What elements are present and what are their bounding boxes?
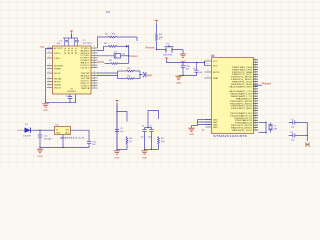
svg-text:TX1: TX1 xyxy=(40,46,45,49)
svg-text:XO: XO xyxy=(54,87,62,89)
U2 left pins gnd xyxy=(202,120,212,132)
ground caps xyxy=(175,76,181,84)
U2 part number xyxy=(213,135,248,138)
svg-text:UD+: UD+ xyxy=(54,53,62,55)
IC U1 body xyxy=(53,46,92,94)
ground grpA xyxy=(114,150,120,160)
capacitor C5 xyxy=(115,128,124,133)
U1 right pins xyxy=(91,46,98,88)
svg-text:2: 2 xyxy=(49,64,50,66)
svg-text:ADJ: ADJ xyxy=(65,132,69,135)
svg-text:PA12/USART1_RTS: PA12/USART1_RTS xyxy=(229,85,252,88)
svg-text:PCXO: PCXO xyxy=(83,43,92,45)
svg-text:8: 8 xyxy=(94,66,95,68)
wire RXD run xyxy=(97,46,126,50)
crystal Y2 xyxy=(265,122,277,134)
svg-text:SDA: SDA xyxy=(54,77,62,80)
svg-text:10u/16V: 10u/16V xyxy=(44,138,53,140)
wire vin xyxy=(18,129,25,131)
svg-text:9: 9 xyxy=(208,76,209,78)
svg-text:PA5/SPI1_SCK: PA5/SPI1_SCK xyxy=(232,129,253,132)
svg-text:AUX/IN: AUX/IN xyxy=(54,64,64,67)
background grid xyxy=(0,0,320,171)
svg-text:GND: GND xyxy=(38,156,44,158)
svg-text:2: 2 xyxy=(49,83,50,85)
svg-text:BOOT0: BOOT0 xyxy=(213,72,220,74)
ground U2 xyxy=(188,128,194,136)
svg-text:10K: 10K xyxy=(159,37,163,39)
resistor R7 xyxy=(105,33,117,38)
U1 name text xyxy=(67,88,76,93)
svg-text:UD-: UD- xyxy=(54,58,61,60)
power flag 3V3 U2 xyxy=(165,58,167,63)
svg-text:2: 2 xyxy=(49,77,50,79)
svg-text:Down: Down xyxy=(129,55,138,58)
svg-text:GND: GND xyxy=(43,110,49,112)
capacitor C12 xyxy=(87,130,97,147)
svg-text:Reset: Reset xyxy=(146,46,155,49)
svg-text:VBAT: VBAT xyxy=(213,77,219,80)
wire xtal top xyxy=(259,121,267,123)
svg-text:Reset: Reset xyxy=(262,82,271,85)
wire gnd rail reg xyxy=(39,135,89,149)
svg-text:4: 4 xyxy=(255,128,256,130)
wire RX run xyxy=(105,63,129,65)
resistor R5 xyxy=(109,60,119,64)
capacitor C11 xyxy=(38,130,52,147)
svg-text:VDD: VDD xyxy=(213,65,218,67)
svg-text:8: 8 xyxy=(94,86,95,88)
wire xtal bottom xyxy=(259,132,267,134)
svg-text:PB12/SPI2_NSS: PB12/SPI2_NSS xyxy=(231,108,253,110)
svg-text:GND: GND xyxy=(142,158,148,160)
svg-text:STM32F103C8T6: STM32F103C8T6 xyxy=(213,135,248,138)
wire vertical down net xyxy=(128,46,129,63)
svg-text:OUT#: OUT# xyxy=(81,68,91,70)
wire speaker join xyxy=(139,71,143,79)
U1 top inner labels xyxy=(65,45,77,54)
svg-text:9: 9 xyxy=(208,59,209,61)
IC U2 body xyxy=(212,58,254,134)
wire vin to reg xyxy=(39,130,54,131)
wire caps join xyxy=(295,122,308,141)
capacitor C6b xyxy=(149,126,153,150)
svg-text:GND: GND xyxy=(176,82,182,84)
ground grpB xyxy=(141,150,147,160)
power flag grpA xyxy=(116,101,118,150)
svg-text:AMS1117-3.3: AMS1117-3.3 xyxy=(60,137,86,140)
svg-text:10K: 10K xyxy=(161,141,165,143)
svg-text:GND: GND xyxy=(54,84,62,86)
U2 corner mark xyxy=(211,55,215,58)
net stub right xyxy=(159,39,161,41)
svg-text:2: 2 xyxy=(49,46,50,48)
resistor R1 xyxy=(118,68,141,72)
net label Down xyxy=(129,55,138,58)
U1 right pin names xyxy=(81,48,93,90)
wire xtal to caps xyxy=(289,122,293,135)
net label TX1 xyxy=(40,46,52,49)
svg-text:SW-PB: SW-PB xyxy=(163,54,173,56)
U2 right pin names xyxy=(229,67,253,132)
svg-text:9: 9 xyxy=(208,70,209,72)
button K1 xyxy=(163,44,174,57)
U1 left pin names xyxy=(54,47,64,90)
net label Reset1 xyxy=(146,46,158,50)
capacitor C7 xyxy=(291,119,295,129)
wire grpA branch xyxy=(116,111,127,122)
svg-text:ACT/OUT: ACT/OUT xyxy=(54,47,64,50)
label Y1 PCXO xyxy=(83,40,92,45)
wire caps gnd xyxy=(179,75,197,76)
cap values grpB xyxy=(141,136,153,138)
net label Reset2 xyxy=(262,82,271,85)
speaker symbol xyxy=(143,72,146,77)
wire U1 bottom pin xyxy=(75,94,76,103)
wire reg out xyxy=(71,129,90,131)
ground button xyxy=(180,54,186,63)
ground regulator xyxy=(37,148,43,159)
svg-text:GND: GND xyxy=(189,134,195,136)
power flag VCC above U1 xyxy=(70,31,72,38)
wire to speaker divider xyxy=(97,71,118,79)
capacitor C10 xyxy=(181,63,191,76)
net label RXI xyxy=(98,61,104,64)
regulator U3 body xyxy=(55,127,71,135)
U2 left pin names xyxy=(213,61,220,129)
net label 3V3 floating xyxy=(106,12,111,14)
svg-text:3V3: 3V3 xyxy=(106,12,111,14)
svg-text:2: 2 xyxy=(49,67,50,69)
resistor R4 xyxy=(156,33,164,50)
wire grpA rail xyxy=(116,149,127,150)
svg-text:2: 2 xyxy=(49,86,50,88)
svg-text:2: 2 xyxy=(49,51,50,53)
wire U2 reset pin xyxy=(254,84,263,86)
svg-text:GND: GND xyxy=(115,158,121,160)
wire button to gnd xyxy=(174,50,183,54)
wire U1 left down xyxy=(45,49,76,103)
svg-text:CH340G: CH340G xyxy=(67,91,76,93)
svg-text:2: 2 xyxy=(49,71,50,73)
U2 right pins xyxy=(254,58,258,130)
svg-text:RST: RST xyxy=(54,81,62,83)
power flag reset xyxy=(155,21,157,34)
wire to filter xyxy=(97,55,129,57)
ground U1 xyxy=(42,104,48,112)
wire grpB captop xyxy=(145,127,152,128)
svg-text:GND: GND xyxy=(56,133,61,135)
svg-text:SPK: SPK xyxy=(147,74,153,77)
wire grpB rail xyxy=(144,149,159,150)
svg-text:RXI: RXI xyxy=(98,61,104,64)
filter C3 xyxy=(114,52,126,58)
capacitors C1 C2 at crystal xyxy=(57,38,79,46)
resistor R6 xyxy=(104,43,117,47)
capacitor C6a xyxy=(142,126,147,150)
wire 3V3 to U2 xyxy=(167,62,206,63)
wire reset to button xyxy=(157,49,165,51)
diode D2 xyxy=(126,45,128,48)
ground xtal xyxy=(305,142,310,146)
svg-text:VCC: VCC xyxy=(213,61,218,63)
svg-text:9: 9 xyxy=(208,64,209,66)
resistor R2 xyxy=(158,137,166,150)
svg-text:2: 2 xyxy=(49,80,50,82)
svg-text:2: 2 xyxy=(49,56,50,58)
wire TXD to R7 xyxy=(98,37,138,48)
crystal bus wire xyxy=(63,37,78,38)
svg-text:DIODE: DIODE xyxy=(23,135,32,137)
capacitor C9 xyxy=(193,63,203,76)
resistor R2 xyxy=(118,76,141,80)
capacitor C4 xyxy=(66,94,72,103)
net label SPK xyxy=(147,74,153,77)
svg-text:PWREN: PWREN xyxy=(54,68,61,70)
U1 left pins xyxy=(47,46,53,87)
wire U2 gnd pins xyxy=(192,120,212,129)
svg-text:GND: GND xyxy=(213,127,218,129)
capacitor C8 xyxy=(290,132,295,142)
U3 part number xyxy=(60,137,86,140)
svg-text:8M: 8M xyxy=(274,129,277,131)
U3 inner text xyxy=(56,129,70,134)
wire grpB branch xyxy=(148,111,159,128)
LED D1 xyxy=(23,124,40,138)
U3 designator xyxy=(56,124,60,126)
U2 left pins top xyxy=(205,59,212,78)
resistor R3 xyxy=(126,137,133,150)
